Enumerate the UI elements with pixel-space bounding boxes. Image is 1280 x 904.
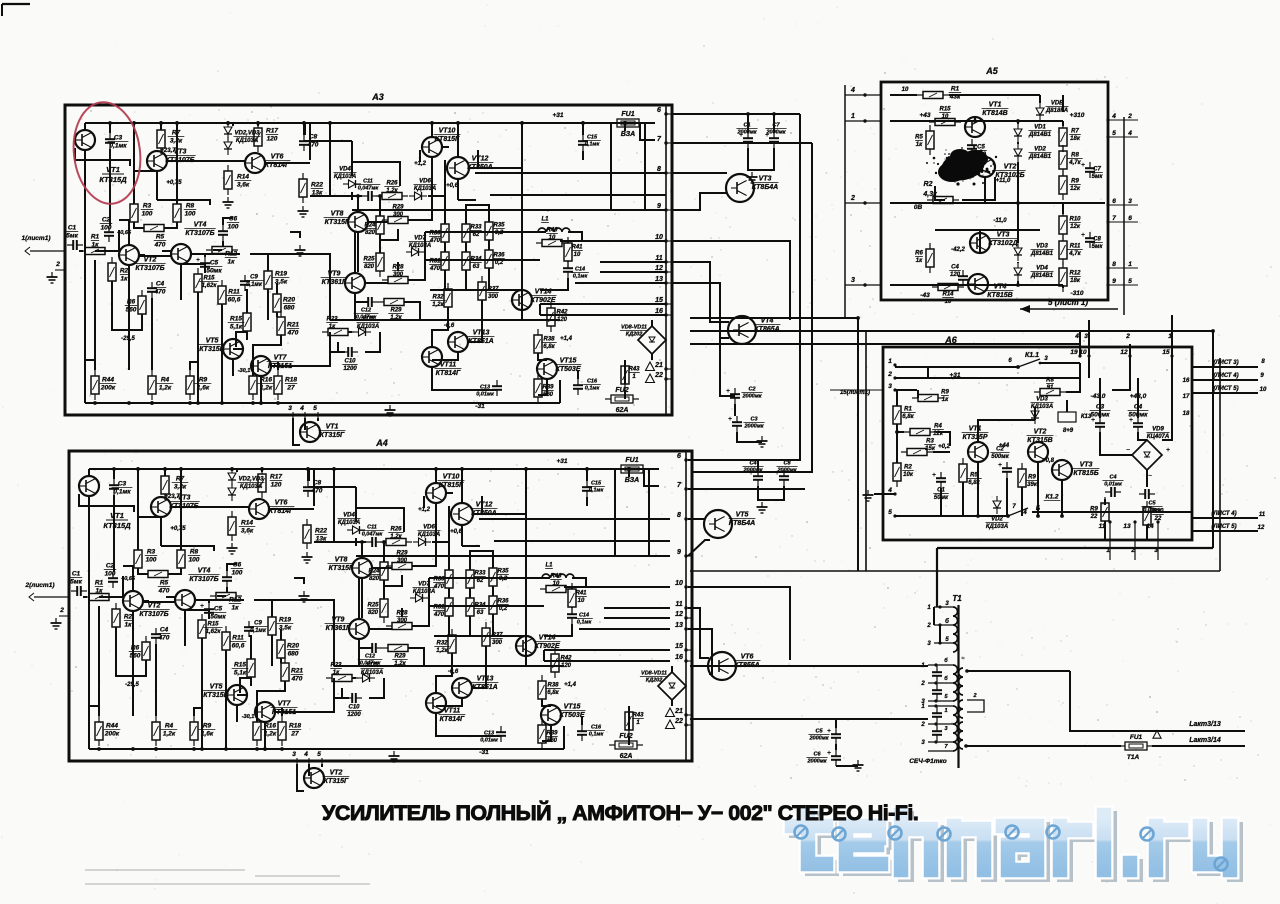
svg-text:б: б: [945, 618, 949, 625]
svg-text:КТ315Д: КТ315Д: [99, 175, 127, 184]
svg-text:VT3: VT3: [1080, 462, 1093, 469]
svg-text:R14: R14: [241, 520, 253, 527]
svg-text:2000мк: 2000мк: [743, 424, 764, 430]
svg-text:+0,75: +0,75: [166, 180, 182, 186]
svg-text:+1,4: +1,4: [564, 682, 577, 688]
svg-text:VD4: VD4: [343, 513, 355, 519]
svg-text:-31: -31: [475, 403, 485, 410]
svg-text:С15: С15: [587, 135, 598, 141]
svg-text:3,6к: 3,6к: [241, 528, 254, 535]
svg-text:4: 4: [299, 405, 304, 412]
svg-text:R8: R8: [1071, 153, 1079, 159]
svg-text:R35: R35: [493, 223, 505, 229]
svg-text:С1: С1: [68, 225, 77, 232]
svg-text:С7: С7: [1093, 167, 1101, 173]
svg-text:С9: С9: [254, 621, 262, 627]
svg-text:21: 21: [674, 708, 683, 715]
svg-text:-42,2: -42,2: [951, 247, 965, 253]
svg-text:УСИЛИТЕЛЬ ПОЛНЫЙ „ АМФИТОН− У−: УСИЛИТЕЛЬ ПОЛНЫЙ „ АМФИТОН− У− 002" СТЕР…: [322, 800, 920, 825]
svg-text:R44: R44: [106, 723, 118, 730]
svg-text:R8: R8: [1046, 378, 1054, 384]
svg-text:0,1мк: 0,1мк: [113, 489, 131, 496]
svg-text:10: 10: [945, 299, 952, 305]
svg-text:КТ902Е: КТ902Е: [530, 297, 555, 304]
svg-text:R3: R3: [147, 549, 156, 556]
svg-text:2000мк: 2000мк: [806, 759, 827, 765]
svg-text:С14: С14: [579, 613, 589, 619]
svg-text:Т1: Т1: [952, 594, 962, 603]
svg-text:R44: R44: [102, 377, 114, 384]
svg-text:12: 12: [1120, 349, 1128, 356]
svg-text:10: 10: [675, 580, 683, 587]
svg-text:R32: R32: [432, 295, 444, 301]
svg-text:19: 19: [1070, 349, 1078, 356]
svg-text:КТ814Г: КТ814Г: [436, 370, 461, 377]
svg-text:R29: R29: [394, 654, 406, 660]
svg-text:1200: 1200: [347, 712, 361, 718]
svg-text:С11: С11: [367, 525, 377, 531]
svg-text:300: 300: [397, 558, 408, 564]
svg-text:R4: R4: [161, 377, 170, 384]
svg-text:VT10: VT10: [443, 474, 460, 481]
svg-text:VD2,VD3: VD2,VD3: [234, 131, 260, 137]
svg-text:R15: R15: [234, 662, 246, 669]
svg-text:6,8к: 6,8к: [902, 414, 914, 420]
svg-text:R10: R10: [1069, 217, 1081, 223]
svg-text:91: 91: [1047, 385, 1054, 391]
svg-text:2: 2: [920, 681, 925, 687]
svg-text:R36: R36: [493, 253, 505, 259]
svg-text:б: б: [944, 657, 948, 664]
svg-text:120: 120: [271, 482, 282, 489]
svg-text:R3: R3: [926, 439, 934, 445]
svg-text:VT7: VT7: [274, 355, 288, 362]
svg-text:R1: R1: [904, 407, 912, 413]
svg-text:(ЛИСТ 4): (ЛИСТ 4): [1213, 373, 1238, 379]
svg-text:2(лист1): 2(лист1): [25, 582, 55, 589]
svg-text:11: 11: [655, 255, 662, 262]
svg-text:1к: 1к: [96, 588, 104, 595]
svg-text:VT11: VT11: [444, 708, 460, 715]
svg-text:17: 17: [1183, 394, 1190, 400]
svg-text:VD2: VD2: [991, 517, 1003, 523]
svg-text:470: 470: [154, 242, 166, 249]
svg-text:(ЛИСТ 5): (ЛИСТ 5): [1211, 524, 1236, 530]
svg-text:+0,8: +0,8: [1042, 458, 1055, 464]
svg-text:VD6: VD6: [419, 179, 431, 185]
svg-text:R38: R38: [543, 337, 555, 343]
svg-text:VT1: VT1: [106, 165, 120, 174]
svg-text:С10: С10: [344, 359, 356, 365]
svg-text:0,1мк: 0,1мк: [589, 488, 605, 494]
svg-text:8: 8: [1112, 261, 1116, 268]
svg-text:1: 1: [888, 358, 892, 365]
svg-text:11: 11: [675, 601, 682, 608]
svg-text:VT3: VT3: [759, 176, 772, 183]
svg-text:R17: R17: [266, 128, 278, 135]
svg-text:R41: R41: [575, 591, 587, 597]
svg-text:1к: 1к: [916, 258, 923, 264]
svg-text:+: +: [998, 462, 1002, 469]
svg-text:С3: С3: [118, 481, 127, 488]
svg-text:18к: 18к: [1070, 278, 1081, 284]
svg-text:470: 470: [429, 266, 441, 272]
svg-text:13: 13: [1123, 523, 1131, 530]
svg-text:VT2: VT2: [1034, 429, 1047, 436]
svg-text:КТ361Г: КТ361Г: [326, 625, 351, 632]
svg-text:R38: R38: [547, 683, 559, 689]
svg-text:R18: R18: [289, 723, 301, 730]
svg-text:R9: R9: [941, 390, 949, 396]
svg-text:+: +: [932, 472, 936, 479]
svg-text:L1: L1: [541, 217, 549, 223]
svg-text:R32: R32: [436, 641, 448, 647]
svg-text:С5: С5: [1148, 501, 1156, 507]
svg-text:1к: 1к: [942, 397, 949, 403]
svg-text:R24: R24: [364, 223, 376, 229]
svg-text:6,8к: 6,8к: [547, 690, 559, 696]
svg-text:120: 120: [267, 136, 278, 143]
svg-text:VD3: VD3: [1036, 397, 1048, 403]
svg-text:120: 120: [950, 272, 961, 278]
svg-text:КТ815Г: КТ815Г: [439, 482, 464, 489]
svg-text:R19: R19: [279, 617, 291, 624]
svg-text:100: 100: [142, 211, 153, 218]
svg-text:60,6: 60,6: [228, 297, 241, 304]
svg-text:1,2к: 1,2к: [436, 648, 448, 654]
svg-text:10: 10: [574, 252, 581, 258]
svg-text:R35: R35: [497, 569, 509, 575]
svg-text:1,62к: 1,62к: [206, 629, 222, 635]
svg-text:-43: -43: [920, 292, 930, 299]
svg-text:13: 13: [655, 276, 663, 283]
svg-text:КД202: КД202: [646, 678, 663, 684]
svg-text:16: 16: [1183, 378, 1190, 384]
svg-text:+0,6: +0,6: [446, 183, 459, 189]
svg-text:2000мк: 2000мк: [742, 468, 763, 474]
svg-text:С9: С9: [250, 275, 258, 281]
svg-text:15: 15: [655, 297, 663, 304]
svg-text:63: 63: [477, 610, 484, 616]
svg-text:+44: +44: [999, 443, 1010, 449]
svg-text:7: 7: [1112, 215, 1116, 222]
svg-text:0,1мк: 0,1мк: [250, 628, 267, 634]
svg-text:Lакт3/14: Lакт3/14: [1189, 737, 1221, 744]
svg-text:16: 16: [655, 308, 663, 315]
svg-text:13: 13: [675, 622, 683, 629]
svg-text:R2: R2: [124, 614, 133, 621]
svg-text:10: 10: [902, 87, 909, 93]
svg-text:СЕЧ-Ф1тко: СЕЧ-Ф1тко: [909, 758, 947, 765]
svg-text:18к: 18к: [1070, 136, 1081, 142]
svg-text:820: 820: [369, 576, 380, 582]
svg-text:12: 12: [1258, 525, 1265, 531]
svg-text:5: 5: [1128, 278, 1132, 285]
svg-text:2: 2: [55, 261, 60, 268]
svg-text:5: 5: [313, 405, 317, 412]
svg-text:-30,1: -30,1: [238, 368, 251, 374]
svg-text:62А: 62А: [620, 753, 633, 760]
svg-text:21: 21: [654, 362, 663, 369]
svg-text:С8: С8: [783, 461, 791, 467]
svg-text:VT12: VT12: [472, 156, 489, 163]
svg-text:R40: R40: [550, 574, 562, 580]
svg-text:VD1: VD1: [1034, 125, 1046, 131]
svg-text:0,1мк: 0,1мк: [573, 274, 589, 280]
svg-text:6: 6: [657, 107, 661, 114]
svg-text:КД103А: КД103А: [361, 670, 383, 676]
svg-text:R39: R39: [542, 385, 554, 391]
svg-text:470: 470: [433, 584, 445, 590]
svg-text:10: 10: [553, 581, 560, 587]
svg-text:VT8: VT8: [331, 211, 344, 218]
svg-text:+: +: [726, 388, 730, 395]
svg-text:R41: R41: [571, 245, 583, 251]
svg-text:100: 100: [189, 557, 200, 564]
svg-text:1,2к: 1,2к: [432, 302, 444, 308]
svg-text:Д814В1: Д814В1: [1030, 251, 1054, 257]
svg-text:(ЛИСТ 3): (ЛИСТ 3): [1213, 360, 1238, 366]
svg-text:КД103А: КД103А: [240, 484, 262, 490]
svg-text:КТ361Г: КТ361Г: [322, 279, 347, 286]
svg-text:С5: С5: [815, 729, 823, 735]
svg-text:VD9: VD9: [1152, 427, 1164, 433]
svg-text:50мк: 50мк: [206, 268, 222, 275]
svg-text:100: 100: [185, 211, 196, 218]
svg-text:VT5: VT5: [736, 512, 749, 519]
svg-text:18: 18: [1183, 411, 1190, 417]
svg-text:1к: 1к: [333, 670, 340, 676]
svg-text:R26: R26: [386, 181, 398, 187]
svg-text:R26: R26: [390, 527, 402, 533]
svg-text:300: 300: [393, 212, 404, 218]
svg-text:L1: L1: [545, 563, 553, 569]
svg-text:FU2: FU2: [615, 387, 628, 394]
svg-text:0,1мк: 0,1мк: [585, 142, 601, 148]
svg-text:+23,7: +23,7: [160, 148, 176, 154]
svg-text:К1.1: К1.1: [1025, 352, 1039, 359]
svg-text:С4: С4: [156, 281, 165, 288]
svg-text:6: 6: [1112, 198, 1116, 205]
svg-text:12: 12: [655, 265, 663, 272]
svg-text:R25: R25: [367, 603, 379, 609]
svg-text:5мк: 5мк: [1092, 174, 1104, 180]
svg-text:0,1мк: 0,1мк: [109, 143, 127, 150]
svg-text:R15: R15: [203, 276, 215, 282]
svg-text:680: 680: [288, 651, 299, 658]
svg-text:КТ315Р: КТ315Р: [962, 434, 987, 441]
svg-text:-43,0: -43,0: [1091, 393, 1106, 400]
svg-text:К1.2: К1.2: [1045, 494, 1058, 501]
svg-text:КТ902Е: КТ902Е: [534, 643, 559, 650]
svg-text:63: 63: [473, 264, 480, 270]
svg-text:10: 10: [1079, 349, 1087, 356]
svg-text:КТ3107Б: КТ3107Б: [189, 576, 218, 583]
svg-text:560: 560: [130, 653, 141, 660]
svg-text:КТ8Б4А: КТ8Б4А: [752, 184, 778, 191]
svg-text:R33: R33: [470, 225, 482, 231]
svg-text:С2: С2: [748, 387, 755, 393]
svg-text:100: 100: [146, 557, 157, 564]
svg-text:FU1: FU1: [625, 457, 638, 464]
svg-text:10: 10: [549, 235, 556, 241]
svg-text:12к: 12к: [1070, 224, 1081, 230]
svg-text:1к: 1к: [916, 142, 923, 148]
svg-text:1: 1: [851, 113, 855, 120]
svg-text:1к: 1к: [329, 324, 336, 330]
svg-text:С15: С15: [591, 481, 602, 487]
svg-text:8: 8: [677, 512, 681, 519]
svg-text:С5: С5: [210, 260, 219, 267]
svg-text:R4: R4: [165, 723, 174, 730]
svg-text:+: +: [1081, 162, 1085, 169]
svg-text:1к: 1к: [92, 242, 100, 249]
svg-text:2: 2: [920, 722, 925, 728]
svg-text:0,1мк: 0,1мк: [577, 620, 593, 626]
svg-text:+: +: [1166, 447, 1170, 454]
svg-text:+43: +43: [919, 112, 930, 119]
svg-text:10: 10: [655, 234, 663, 241]
svg-text:R1: R1: [95, 580, 104, 587]
svg-text:КТ315Г: КТ315Г: [320, 432, 345, 439]
svg-text:6: 6: [677, 453, 681, 460]
svg-text:0,1мк: 0,1мк: [589, 732, 605, 738]
svg-text:R8: R8: [190, 549, 199, 556]
svg-text:VT2: VT2: [1004, 164, 1017, 171]
svg-text:27: 27: [290, 731, 299, 738]
svg-text:+0,2: +0,2: [938, 444, 951, 450]
svg-text:+0,75: +0,75: [170, 526, 186, 532]
svg-text:VT5: VT5: [206, 338, 219, 345]
svg-text:VT1: VT1: [326, 424, 339, 431]
svg-text:2: 2: [972, 693, 976, 699]
svg-text:КТ814В: КТ814В: [982, 110, 1007, 117]
svg-text:6,8к: 6,8к: [543, 344, 555, 350]
svg-text:R21: R21: [291, 668, 303, 675]
svg-text:470: 470: [291, 676, 303, 683]
svg-text:VT7: VT7: [278, 701, 292, 708]
svg-text:5мк: 5мк: [70, 579, 82, 586]
svg-text:Lакт3/13: Lакт3/13: [1189, 721, 1221, 728]
svg-text:-0,6: -0,6: [444, 323, 455, 329]
svg-text:1,2к: 1,2к: [159, 385, 172, 392]
svg-text:5мк: 5мк: [66, 233, 78, 240]
svg-text:27: 27: [286, 385, 295, 392]
svg-text:А4: А4: [375, 438, 388, 448]
svg-text:5: 5: [888, 509, 892, 516]
svg-text:R36: R36: [497, 599, 509, 605]
svg-text:5мк: 5мк: [1092, 244, 1104, 250]
svg-text:0В: 0В: [914, 204, 923, 211]
svg-text:4: 4: [303, 751, 308, 758]
svg-text:2: 2: [1125, 333, 1130, 340]
svg-text:1к: 1к: [228, 259, 236, 266]
svg-text:R9: R9: [203, 723, 212, 730]
svg-text:С4: С4: [1109, 475, 1116, 481]
svg-text:R1: R1: [91, 234, 100, 241]
svg-text:КТ3107Б: КТ3107Б: [135, 265, 164, 272]
svg-text:КТ815Г: КТ815Г: [435, 136, 460, 143]
svg-text:R11: R11: [228, 289, 240, 296]
svg-text:-310: -310: [1070, 290, 1083, 297]
svg-text:0,1мк: 0,1мк: [246, 282, 263, 288]
svg-text:R5: R5: [160, 580, 169, 587]
svg-text:1: 1: [944, 708, 947, 714]
svg-text:3: 3: [288, 405, 292, 412]
svg-text:R4: R4: [934, 424, 942, 430]
svg-text:VT6: VT6: [271, 154, 284, 161]
svg-text:470: 470: [307, 142, 319, 149]
svg-text:Д818ГА: Д818ГА: [1045, 108, 1068, 114]
svg-text:3: 3: [1084, 333, 1088, 340]
svg-text:R5: R5: [156, 234, 165, 241]
svg-text:А3: А3: [371, 92, 384, 102]
svg-text:6: 6: [1128, 215, 1132, 222]
svg-text:С4: С4: [951, 265, 959, 271]
svg-text:560: 560: [126, 307, 137, 314]
svg-text:КТ315В: КТ315В: [203, 692, 228, 699]
svg-text:VD3: VD3: [1036, 244, 1048, 250]
svg-text:R2: R2: [120, 268, 129, 275]
svg-text:300: 300: [492, 640, 503, 646]
svg-text:4,7к: 4,7к: [1068, 251, 1081, 257]
svg-text:9: 9: [1112, 278, 1116, 285]
svg-text:4: 4: [1074, 333, 1079, 340]
svg-text:16: 16: [675, 654, 683, 661]
svg-text:2: 2: [887, 371, 892, 378]
svg-text:R43: R43: [632, 713, 644, 719]
svg-text:820: 820: [368, 610, 379, 616]
svg-text:4: 4: [850, 87, 855, 94]
svg-text:(ЛИСТ 4): (ЛИСТ 4): [1211, 511, 1236, 517]
svg-text:4: 4: [887, 487, 892, 494]
svg-text:500мк: 500мк: [991, 454, 1009, 460]
svg-text:22: 22: [654, 372, 663, 379]
svg-text:КТ315В: КТ315В: [199, 346, 224, 353]
svg-text:+: +: [827, 728, 831, 735]
svg-text:С3: С3: [750, 417, 757, 423]
svg-text:R25: R25: [363, 257, 375, 263]
svg-text:300: 300: [397, 618, 408, 624]
svg-text:+: +: [728, 416, 732, 423]
svg-text:+31: +31: [556, 458, 567, 465]
svg-text:+0,6: +0,6: [450, 529, 463, 535]
svg-text:1,2к: 1,2к: [390, 534, 402, 540]
svg-text:VT6: VT6: [741, 654, 754, 661]
svg-text:470: 470: [154, 289, 166, 296]
svg-text:R7: R7: [1071, 129, 1079, 135]
svg-text:0,047мк: 0,047мк: [358, 186, 380, 192]
svg-text:VT1: VT1: [989, 102, 1002, 109]
svg-text:15(лист1): 15(лист1): [840, 390, 870, 396]
svg-text:0,047мк: 0,047мк: [362, 532, 384, 538]
svg-text:R22: R22: [311, 182, 323, 189]
svg-text:-31: -31: [479, 749, 489, 756]
svg-text:VT11: VT11: [440, 362, 456, 369]
svg-text:R11: R11: [232, 635, 244, 642]
svg-text:С16: С16: [591, 725, 602, 731]
svg-text:62А: 62А: [616, 407, 629, 414]
svg-text:4: 4: [1111, 113, 1116, 120]
svg-text:R21: R21: [287, 322, 299, 329]
svg-text:FU2: FU2: [619, 733, 632, 740]
svg-text:1: 1: [1128, 261, 1132, 268]
svg-text:+11,0: +11,0: [996, 178, 1011, 184]
svg-text:R8: R8: [186, 203, 195, 210]
svg-text:3: 3: [292, 751, 296, 758]
svg-text:FU1: FU1: [621, 111, 634, 118]
svg-text:С10: С10: [348, 705, 360, 711]
